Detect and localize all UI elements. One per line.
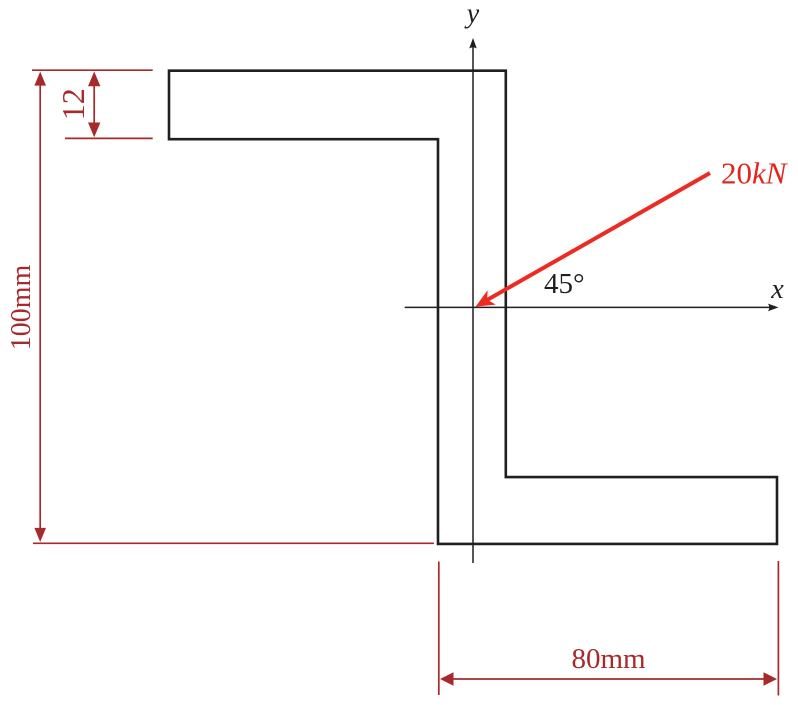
svg-text:45°: 45° [544,268,585,300]
svg-text:x: x [770,274,784,305]
svg-text:y: y [464,0,480,30]
svg-text:100mm: 100mm [6,265,37,351]
svg-text:80mm: 80mm [571,643,646,675]
svg-text:20kN: 20kN [721,156,789,191]
svg-text:12: 12 [55,88,91,120]
